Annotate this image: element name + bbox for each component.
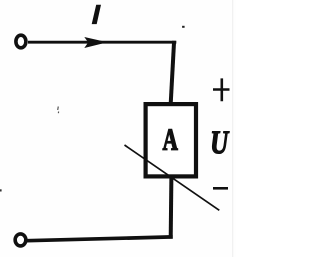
scan streak right edge: [232, 0, 233, 257]
terminal T1 (top-left): [16, 35, 26, 48]
wire bottom vertical: [169, 176, 174, 239]
box element A: [146, 104, 196, 176]
wire bottom horizontal: [27, 237, 173, 241]
terminal T2 (bottom-left): [15, 234, 26, 246]
diagonal strike line: [125, 145, 220, 210]
label A: [163, 129, 178, 149]
label U: [212, 132, 229, 154]
speck left edge: [0, 189, 2, 191]
wire top vertical: [171, 41, 174, 104]
current arrow: [84, 37, 107, 48]
plus sign: [213, 78, 230, 101]
minus sign: [213, 187, 228, 190]
speck apostrophe: [57, 107, 60, 114]
wire top horizontal: [28, 41, 176, 44]
speck dot: [182, 26, 185, 28]
label I: [92, 5, 101, 24]
